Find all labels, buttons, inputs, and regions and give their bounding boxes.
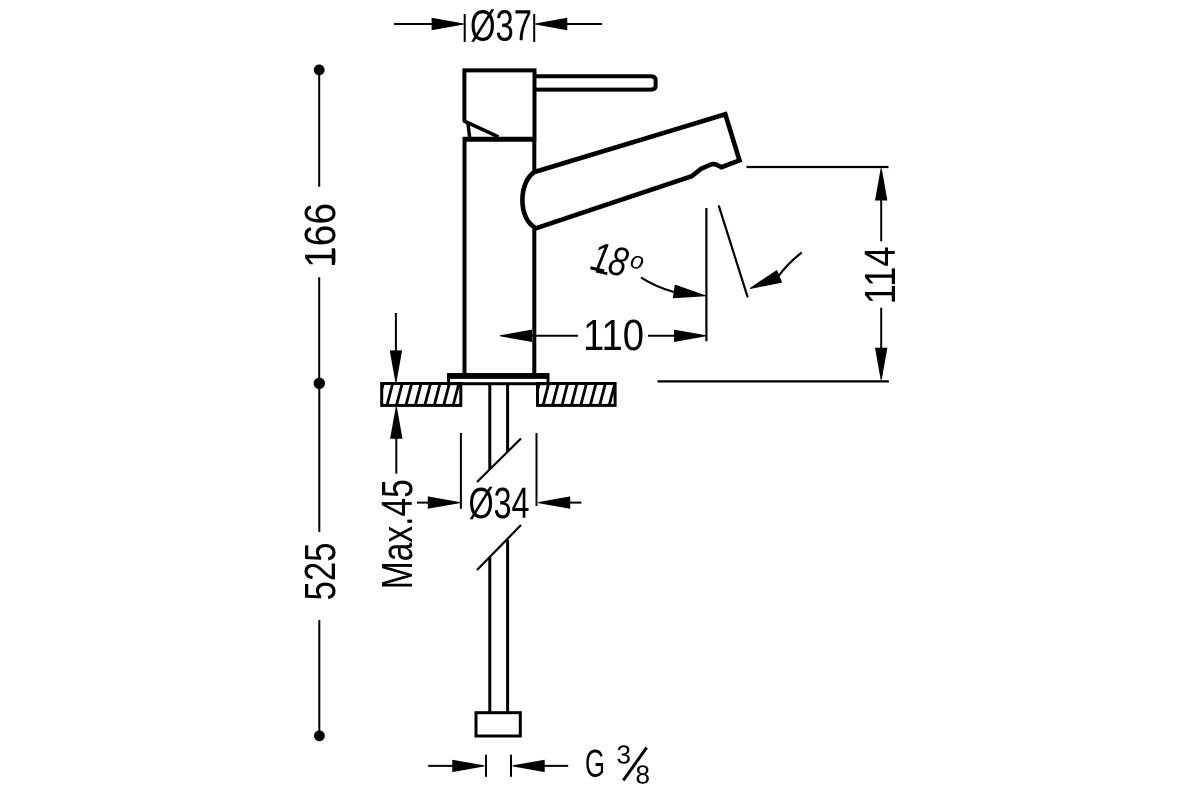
- spout: [522, 114, 739, 228]
- dim O37 ticks: [464, 14, 466, 42]
- pipe break slash upper: [477, 439, 521, 483]
- 18 deg leader arc right: [778, 253, 802, 278]
- svg-text:166: 166: [296, 203, 345, 268]
- svg-text:114: 114: [856, 246, 905, 304]
- dim O34 arrows: [417, 502, 431, 504]
- body column: [465, 141, 535, 376]
- cap notch diagonal: [463, 121, 498, 137]
- dim 525: [315, 731, 325, 741]
- dim O37 arrows: [394, 23, 434, 25]
- dim 110: [500, 330, 532, 341]
- svg-text:Max.45: Max.45: [373, 479, 422, 589]
- dim G38 ticks: [485, 755, 487, 777]
- stream vertical line: [705, 208, 707, 341]
- svg-text:8: 8: [636, 759, 650, 789]
- threaded shank: [490, 384, 508, 713]
- dim Max.45 arrows: [395, 313, 397, 353]
- serifs on 114 ones: [892, 287, 895, 300]
- mounting base plate: [449, 375, 548, 384]
- dim G38 arrows: [428, 765, 454, 767]
- 18 deg leader arc left: [641, 278, 674, 293]
- svg-text:3: 3: [617, 739, 631, 769]
- dim O34 ticks: [460, 433, 462, 509]
- countertop left slab: [377, 382, 469, 408]
- cap notch side: [468, 124, 470, 138]
- serif on italic 1: [596, 271, 607, 274]
- serif on 166 one: [333, 250, 336, 263]
- svg-text:G: G: [585, 743, 605, 786]
- stream slanted line: [719, 206, 748, 298]
- shank end nut: [476, 713, 520, 736]
- dim 114: [876, 169, 887, 201]
- cap-body joint: [463, 137, 537, 142]
- svg-text:110: 110: [583, 311, 644, 360]
- pipe break slash lower: [477, 525, 521, 570]
- dim 166: [314, 65, 324, 75]
- countertop right slab: [533, 382, 625, 408]
- svg-text:525: 525: [296, 543, 345, 601]
- serifs on 110 ones: [587, 347, 600, 350]
- svg-text:Ø34: Ø34: [469, 479, 530, 528]
- cartridge cap: [462, 68, 536, 141]
- dim 114 ref lines: [747, 166, 889, 168]
- svg-text:Ø37: Ø37: [470, 2, 532, 51]
- lever handle: [535, 76, 656, 89]
- 18 deg label: [587, 233, 648, 289]
